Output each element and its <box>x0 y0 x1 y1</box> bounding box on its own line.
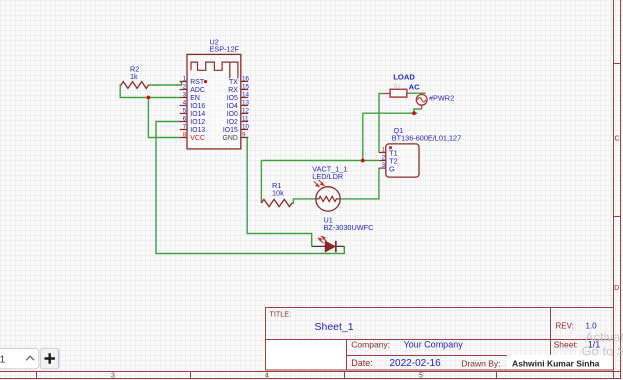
LDR VACT_1_1 circle <box>316 187 340 211</box>
wire IO12 to LED cathode net <box>156 122 344 254</box>
wire R2 right to RST pin <box>149 82 182 85</box>
svg-text:3: 3 <box>382 162 386 169</box>
wire T2 net horizontal <box>261 160 378 162</box>
svg-text:11: 11 <box>242 115 249 122</box>
svg-text:1k: 1k <box>130 72 138 81</box>
svg-text:10: 10 <box>242 123 250 130</box>
svg-text:Go to Se: Go to Se <box>582 344 623 359</box>
U2 right pin stubs <box>241 82 248 138</box>
svg-text:BZ-3030UWFC: BZ-3030UWFC <box>324 223 374 232</box>
svg-text:RX: RX <box>228 87 238 94</box>
title block white patch behind drawn-by name <box>507 355 613 370</box>
wire R1 right to LDR left <box>292 199 315 203</box>
svg-text:IO2: IO2 <box>227 119 238 126</box>
svg-text:2: 2 <box>183 83 187 90</box>
junction T2 net <box>361 159 365 163</box>
add sheet button <box>40 348 59 368</box>
svg-text:IO15: IO15 <box>223 127 238 134</box>
U2 right pin numbers <box>242 75 250 138</box>
svg-text:8: 8 <box>183 131 187 138</box>
Q1 pin numbers <box>382 146 386 169</box>
wire LOAD right over AC <box>408 92 425 94</box>
wire LOAD left down to T1 <box>379 94 383 153</box>
AC source circle #PWR2 <box>416 94 427 105</box>
svg-text:Sheet_1: Sheet_1 <box>315 321 354 333</box>
svg-text:IO14: IO14 <box>190 111 205 118</box>
svg-text:IO12: IO12 <box>190 119 205 126</box>
LOAD right stub <box>407 93 409 95</box>
svg-text:TITLE:: TITLE: <box>270 310 292 319</box>
wire R2 left to EN net <box>120 85 180 98</box>
triac Q1 body <box>386 144 419 177</box>
svg-text:Activate: Activate <box>585 330 623 345</box>
svg-text:1: 1 <box>183 75 187 82</box>
svg-text:AC: AC <box>409 82 420 91</box>
junction EN net <box>147 96 151 100</box>
svg-text:Company:: Company: <box>351 340 390 350</box>
svg-text:#PWR2: #PWR2 <box>429 93 454 102</box>
svg-text:6: 6 <box>183 115 187 122</box>
svg-text:ESP-12F: ESP-12F <box>210 45 240 54</box>
sheet tab bar <box>0 348 39 368</box>
svg-text:1: 1 <box>382 146 386 153</box>
svg-text:4: 4 <box>183 99 187 106</box>
LOAD left stub <box>383 93 390 95</box>
svg-text:10k: 10k <box>272 189 284 198</box>
LDR light arrows <box>314 180 324 187</box>
Q1 pin names <box>389 149 398 174</box>
wire GND pin down to LED anode <box>247 138 312 247</box>
wire T2 junction up to AC source <box>363 109 422 161</box>
LED emission arrows <box>318 237 326 244</box>
svg-text:BT136-600E/L01,127: BT136-600E/L01,127 <box>392 133 461 142</box>
svg-text:IO0: IO0 <box>227 111 238 118</box>
svg-text:N1: N1 <box>394 84 401 90</box>
Q1 pin1 marker dot <box>389 146 392 149</box>
title block white cell <box>266 339 347 370</box>
AC sine wave <box>418 98 426 102</box>
U2 right pin names <box>222 79 238 142</box>
svg-text:15: 15 <box>242 83 250 90</box>
svg-text:16: 16 <box>242 75 250 82</box>
svg-text:12: 12 <box>242 107 250 114</box>
U2 left pin numbers <box>183 75 187 138</box>
svg-text:EN: EN <box>190 95 200 102</box>
svg-text:TX: TX <box>229 79 238 86</box>
svg-text:VCC: VCC <box>190 135 205 142</box>
U2 left pin names <box>190 79 205 142</box>
U2 antenna glyph <box>191 62 238 78</box>
Q1 pin stubs <box>379 153 386 169</box>
wire T2 net down to R1 <box>260 161 262 204</box>
svg-text:LED/LDR: LED/LDR <box>312 172 343 181</box>
svg-text:D: D <box>614 285 619 292</box>
svg-text:4: 4 <box>265 373 269 380</box>
LED U1 cathode bar <box>335 241 337 252</box>
svg-text:Drawn By:: Drawn By: <box>461 358 500 368</box>
wire LDR right up to gate G <box>341 168 379 199</box>
sheet frame bottom border <box>0 372 621 379</box>
svg-text:IO16: IO16 <box>190 103 205 110</box>
ESP-12F U2 body <box>187 54 241 148</box>
svg-text:3: 3 <box>111 373 115 380</box>
svg-text:5: 5 <box>183 107 187 114</box>
svg-text:Date:: Date: <box>351 358 373 368</box>
svg-text:RST: RST <box>190 79 205 86</box>
junction AC net <box>412 111 416 115</box>
resistor R1 <box>261 199 292 206</box>
sheet tab chevron <box>26 356 34 360</box>
svg-text:C: C <box>614 136 619 143</box>
LED U1 cathode stub <box>337 245 345 247</box>
svg-text:1: 1 <box>0 354 6 366</box>
LED U1 triangle <box>325 241 336 252</box>
svg-text:13: 13 <box>242 99 250 106</box>
svg-text:IO13: IO13 <box>190 127 205 134</box>
svg-text:IO5: IO5 <box>227 95 238 102</box>
svg-text:GND: GND <box>222 135 237 142</box>
svg-text:Your Company: Your Company <box>404 340 464 350</box>
svg-text:3: 3 <box>183 91 187 98</box>
svg-text:ADC: ADC <box>190 87 205 94</box>
add sheet plus glyph <box>45 353 55 363</box>
LOAD resistor box <box>390 89 407 97</box>
svg-text:2022-02-16: 2022-02-16 <box>390 358 442 369</box>
svg-text:9: 9 <box>242 131 246 138</box>
U2 pin1 marker dot <box>204 80 207 83</box>
svg-text:14: 14 <box>242 91 250 98</box>
svg-text:2: 2 <box>382 154 386 161</box>
svg-text:Sheet:: Sheet: <box>554 340 579 350</box>
title block borders <box>266 308 614 371</box>
svg-text:REV:: REV: <box>556 322 574 331</box>
svg-text:5: 5 <box>419 373 423 380</box>
sheet frame right border <box>614 0 621 379</box>
wire EN junction down to VCC pin <box>148 98 179 138</box>
svg-text:G: G <box>389 164 395 173</box>
svg-text:IO4: IO4 <box>227 103 238 110</box>
svg-text:Ashwini Kumar Sinha: Ashwini Kumar Sinha <box>512 358 600 368</box>
LDR internal resistor zigzag <box>316 196 340 201</box>
resistor R2 <box>121 82 149 89</box>
AC bottom stub <box>421 105 423 109</box>
svg-text:LOAD: LOAD <box>393 73 415 82</box>
LED U1 anode stub <box>312 245 325 247</box>
svg-text:7: 7 <box>183 123 187 130</box>
U2 left pin stubs <box>180 82 187 138</box>
add sheet button highlight <box>58 349 60 367</box>
